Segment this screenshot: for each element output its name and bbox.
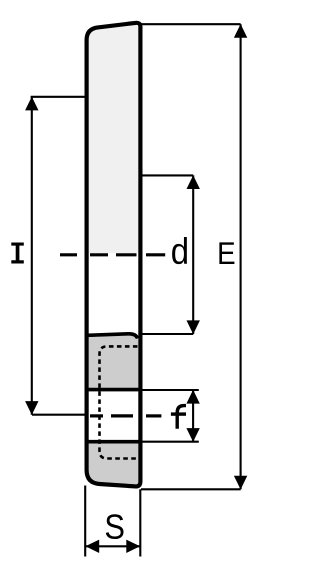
label E: [219, 242, 234, 264]
node: S arrow right: [126, 540, 140, 553]
node: upper body light-gray fill: [85, 18, 143, 253]
label f: [171, 406, 186, 429]
wire: E top extension line: [141, 23, 241, 25]
node: hub section gray fill (rounded top-right): [89, 335, 139, 391]
wire: I bottom extension line: [32, 414, 86, 416]
label I: [11, 243, 23, 264]
node: d arrow down: [187, 320, 200, 334]
wire: f top extension line: [141, 389, 199, 391]
node: bottom section gray fill: [85, 444, 143, 489]
node: I arrow down: [25, 401, 38, 415]
wire: f dimension line: [192, 390, 194, 442]
label d: [172, 237, 187, 264]
node: d arrow up: [187, 175, 200, 189]
wire: d bottom extension line: [141, 333, 193, 335]
wire: E bottom extension line: [141, 488, 241, 490]
node: part outline: [87, 23, 141, 487]
wire: S right extension line: [139, 489, 141, 556]
label S: [106, 514, 124, 539]
node: E arrow up: [234, 24, 247, 38]
node: I arrow up: [25, 97, 38, 111]
wire: I dimension line: [31, 97, 33, 415]
wire: d top extension line: [141, 174, 193, 176]
wire: S dimension line: [85, 545, 140, 547]
wire: I top extension line: [31, 96, 86, 98]
wire: S left extension line: [84, 486, 86, 557]
wire: d dimension line: [192, 175, 194, 334]
node: slot bottom solid line: [88, 440, 140, 444]
wire: f bottom extension line: [141, 441, 199, 443]
node: E arrow down: [234, 476, 247, 490]
node: main centerline dashes: [60, 253, 165, 256]
node: f arrow up: [186, 390, 199, 404]
wire: E dimension line: [240, 24, 242, 489]
node: S arrow left: [85, 540, 99, 553]
node: slot top solid line: [88, 388, 140, 392]
node: f arrow down: [186, 428, 199, 442]
node: hub top solid line: [88, 334, 138, 339]
wire: hidden-detail dashed contour: [100, 346, 138, 458]
node: f hole centerline dashes: [90, 414, 161, 417]
